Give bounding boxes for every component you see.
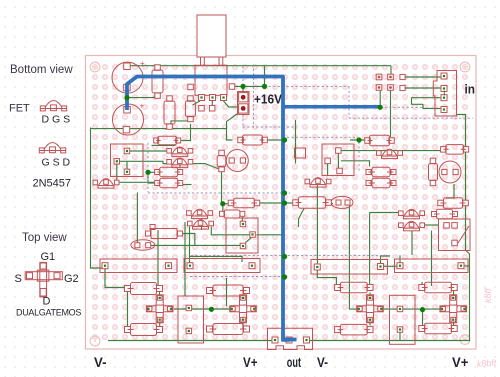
wire X3 bottom to R20 xyxy=(369,322,371,326)
connector J-IN xyxy=(433,71,456,117)
wire X1 to X2 xyxy=(174,308,231,310)
wire X3 top xyxy=(369,293,371,297)
dual-gate MOSFET X4 xyxy=(440,295,467,323)
wire box to Q9 to C3 xyxy=(341,150,441,152)
wire K1 padB right xyxy=(119,161,166,163)
wire X3 to X4 xyxy=(377,308,440,310)
wire pad to blue end xyxy=(379,91,381,108)
wire J3 pad from dashed xyxy=(399,255,401,262)
wire top bus xyxy=(127,65,391,67)
airwire x243 lower xyxy=(242,115,244,128)
wire pot pad to junction xyxy=(232,85,265,87)
wire BR3 pad to bus xyxy=(399,333,401,341)
oval component G1 xyxy=(331,196,353,208)
svg-text:V-: V- xyxy=(317,355,328,370)
svg-text:FET: FET xyxy=(9,103,30,115)
wire Q10 stub xyxy=(201,219,203,230)
jumper J2 xyxy=(184,259,260,273)
transistor Q4 (TO-18) xyxy=(226,150,248,172)
wire J2b right pad up xyxy=(381,256,391,263)
wire dot to R21 xyxy=(422,312,424,326)
wire J2b to J3 xyxy=(383,265,397,267)
transistor Q10 xyxy=(187,209,213,219)
blue trace into out pad xyxy=(283,337,290,340)
fiducial bottom-left xyxy=(90,336,100,346)
resistor R19 xyxy=(419,282,457,293)
wire Q11 left drop to J2 xyxy=(189,227,191,264)
wire Q8 to bigrect xyxy=(424,224,439,226)
FET package bottom-view (DGS) xyxy=(40,101,67,111)
airwire y86 xyxy=(265,85,350,87)
wire left bus xyxy=(91,128,106,269)
potentiometer P1 xyxy=(188,15,235,101)
svg-text:Bottom view: Bottom view xyxy=(10,64,73,76)
svg-text:G S D: G S D xyxy=(42,157,71,169)
wire BR2 pad2 to blue xyxy=(257,234,284,236)
resistor R3 xyxy=(185,96,195,122)
pad 339 xyxy=(337,168,343,174)
wire R9 right xyxy=(181,184,192,186)
wire K1 padB down to Q1 xyxy=(116,164,118,180)
wire top bus drop x391 xyxy=(390,66,392,74)
wire bottom bus left xyxy=(108,340,274,342)
wire pad row2 to in xyxy=(403,87,442,89)
dual-gate MOSFET X1 xyxy=(146,295,173,323)
wire y145 stub xyxy=(152,144,176,146)
wire dot to R12 xyxy=(223,203,231,205)
wire pad327 drop xyxy=(327,163,329,176)
pad 402-77 xyxy=(400,74,405,79)
wire X4 bottom to R21 xyxy=(453,323,455,327)
via pads cluster xyxy=(376,74,393,90)
component U5 box xyxy=(322,144,354,176)
wire pot pin diagonals xyxy=(193,101,240,107)
resistor R9 xyxy=(155,178,183,188)
svg-text:S: S xyxy=(15,273,22,285)
svg-text:V+: V+ xyxy=(452,355,469,370)
transistor Q2a xyxy=(167,147,193,157)
resistor R4 xyxy=(154,136,181,145)
wire x243 to pad xyxy=(242,86,244,92)
svg-text:G2: G2 xyxy=(64,273,79,285)
resistor R7 xyxy=(365,135,395,146)
pad 402-88 xyxy=(400,85,405,90)
component BR1 right xyxy=(439,219,471,251)
resistor R1 xyxy=(152,65,163,99)
wire U38 to BR2 pad xyxy=(241,217,243,222)
resistor R21 xyxy=(419,323,457,334)
wire in pad3 L xyxy=(412,98,447,105)
connector J-OUT xyxy=(268,328,313,349)
component U2 small xyxy=(295,148,306,158)
wire supply elbow to R5 xyxy=(227,112,241,141)
airwire x148 xyxy=(147,143,149,193)
wire X4 top xyxy=(453,291,455,296)
wire bottom bus right xyxy=(307,340,471,342)
svg-text:G1: G1 xyxy=(41,251,56,263)
wire R13 left diag xyxy=(299,209,305,228)
svg-text:k8bft: k8bft xyxy=(476,358,497,369)
wire X2 bottom xyxy=(242,323,244,330)
wire x226 vert xyxy=(226,278,228,306)
wire J3 right pad xyxy=(461,265,470,267)
capacitor C2 (electrolytic) xyxy=(113,102,145,136)
transistor Q1 xyxy=(93,179,119,189)
power supply pads +16V xyxy=(238,92,250,115)
wire cap2 left xyxy=(91,127,227,129)
transistor Q6 (TO-18) xyxy=(439,161,461,183)
resistor R-left38 xyxy=(220,211,225,216)
jumper J1 xyxy=(100,259,177,273)
fiducial top-left xyxy=(90,62,100,72)
airwire x243 upper xyxy=(242,66,244,86)
wire Q6 to C6 xyxy=(446,184,454,198)
dual-gate MOSFET top-view drawing xyxy=(25,262,62,297)
dual-gate MOSFET X3 xyxy=(357,295,384,323)
fiducial bottom-right xyxy=(460,335,470,345)
header P2 pads xyxy=(199,106,205,112)
svg-text:Top view: Top view xyxy=(22,232,67,244)
transistor Q8 xyxy=(399,221,425,231)
resistor R18 xyxy=(335,282,373,293)
component BR3 xyxy=(390,295,416,344)
airwire x253 xyxy=(252,65,254,128)
transistor Q11 xyxy=(188,220,214,230)
airwire y137 xyxy=(287,136,358,138)
wire R19 stub xyxy=(421,282,423,286)
airwire y276 xyxy=(190,276,284,278)
wire R14 to X1 top xyxy=(159,292,161,295)
airwire y107 right xyxy=(380,106,423,108)
wire BR2 diagonal xyxy=(246,238,252,243)
wire R9 left xyxy=(148,172,157,183)
svg-text:V-: V- xyxy=(94,355,107,370)
wire x390 long drop xyxy=(390,91,392,138)
oval component G2 xyxy=(131,240,155,250)
jumper J3 xyxy=(395,259,469,273)
wire R3 bottom left xyxy=(171,121,188,124)
svg-text:k8ff: k8ff xyxy=(483,287,493,303)
wire oval to X3 left arm xyxy=(348,203,357,310)
wire U3 right link xyxy=(183,234,195,246)
svg-text:DUALGATEMOS: DUALGATEMOS xyxy=(16,308,81,318)
blue trace main V+ rail xyxy=(127,77,297,340)
svg-text:D G S: D G S xyxy=(42,114,71,126)
svg-text:+16V: +16V xyxy=(254,92,282,107)
component BR2 mid xyxy=(226,218,258,253)
resistor R13 xyxy=(293,197,332,209)
capacitor C1 (electrolytic) xyxy=(112,59,145,93)
wire C4 drop xyxy=(221,172,223,204)
wire K1 padA to Q2a xyxy=(130,150,167,152)
airwire y255 xyxy=(191,254,390,256)
svg-text:+: + xyxy=(140,59,145,68)
svg-text:V+: V+ xyxy=(243,355,258,370)
fiducial top-right xyxy=(460,62,470,72)
resistor R5 xyxy=(238,135,267,145)
airwire x349 xyxy=(348,86,350,118)
svg-text:+: + xyxy=(140,102,145,111)
pad 327 xyxy=(325,158,331,164)
FET package bottom-view (GSD) xyxy=(39,143,66,153)
wire pad338 up xyxy=(337,153,339,169)
wire K1 padC up xyxy=(126,161,128,169)
wire R3 pad to R4 xyxy=(181,124,190,141)
resistor R10 xyxy=(366,167,396,177)
airwire y193 xyxy=(148,192,290,194)
airwire y127 xyxy=(243,126,297,128)
jumper J2b xyxy=(311,260,388,275)
resistor R17 xyxy=(207,324,250,335)
wire Q2b to C4 xyxy=(192,164,221,170)
wire x295 vert xyxy=(295,120,297,164)
wire x412 drop xyxy=(411,231,413,255)
wire Q5 center drop xyxy=(316,184,318,264)
wire R8 left xyxy=(148,171,157,173)
dual-gate MOSFET X2 xyxy=(230,295,257,323)
wire dot359 to R7 xyxy=(350,139,368,141)
resistor R14 xyxy=(125,283,163,295)
wire oval2 feed xyxy=(136,193,138,244)
wire oval2 to BR2 xyxy=(151,243,241,245)
wire R14 to R15 left xyxy=(127,292,129,327)
resistor R20 xyxy=(335,324,373,335)
board outline xyxy=(86,56,477,350)
capacitor C7 xyxy=(432,209,458,219)
resistor R15 xyxy=(125,324,163,336)
wire pad row1 to in xyxy=(403,76,442,78)
svg-text:in: in xyxy=(465,83,476,97)
wire J1 pad to R14 xyxy=(105,267,128,289)
capacitor C5 xyxy=(430,158,436,164)
svg-text:out: out xyxy=(287,355,302,370)
wire in pad4 link xyxy=(423,104,441,108)
wire x369 to Q7 xyxy=(370,212,399,214)
resistor R11 xyxy=(366,178,396,188)
wire y160 link xyxy=(341,161,370,167)
wire x431 drop xyxy=(431,231,433,286)
wire x185 vert xyxy=(184,222,186,296)
transistor Q7 xyxy=(399,209,425,219)
wire x158 drop xyxy=(157,230,159,286)
wire x369 vert to R18 xyxy=(369,213,371,285)
wire dot drop xyxy=(222,204,224,215)
capacitor C3 xyxy=(441,145,469,155)
transistor Q9 xyxy=(377,149,403,159)
wire R5 to blue xyxy=(264,139,285,141)
capacitor C6 xyxy=(438,198,469,209)
resistor R8 xyxy=(155,167,183,177)
transistor Q5 xyxy=(305,178,331,188)
svg-text:2N5457: 2N5457 xyxy=(33,178,72,190)
resistor R16 xyxy=(207,285,250,296)
wire R13 to oval xyxy=(326,203,333,205)
wire x264 drop xyxy=(264,66,266,87)
wire R12 to R13 across blue xyxy=(257,202,296,204)
airwire y118 xyxy=(349,117,473,119)
svg-text:D: D xyxy=(43,296,51,308)
pad pin marks xyxy=(104,75,466,341)
wire y256 link xyxy=(190,256,243,262)
wire cap junction right xyxy=(127,97,154,98)
capacitor C4 xyxy=(219,150,225,156)
wire Q11 right to BR2 xyxy=(211,227,251,235)
airwire x359 xyxy=(358,142,360,172)
transistor Q2b xyxy=(167,158,193,168)
wire right bus xyxy=(457,115,470,341)
wire J2b left pad drop xyxy=(317,270,336,285)
component U3 xyxy=(146,231,151,236)
wire R8 right up xyxy=(179,165,181,169)
component BR-left xyxy=(178,296,204,343)
resistor R2 xyxy=(164,96,175,130)
resistor R12 xyxy=(228,198,260,208)
relay K1 xyxy=(111,144,144,177)
wire Q1 to R9 xyxy=(119,181,155,183)
blue trace branch y106 xyxy=(284,105,380,109)
wire X1 bottom to R15 xyxy=(159,323,161,327)
